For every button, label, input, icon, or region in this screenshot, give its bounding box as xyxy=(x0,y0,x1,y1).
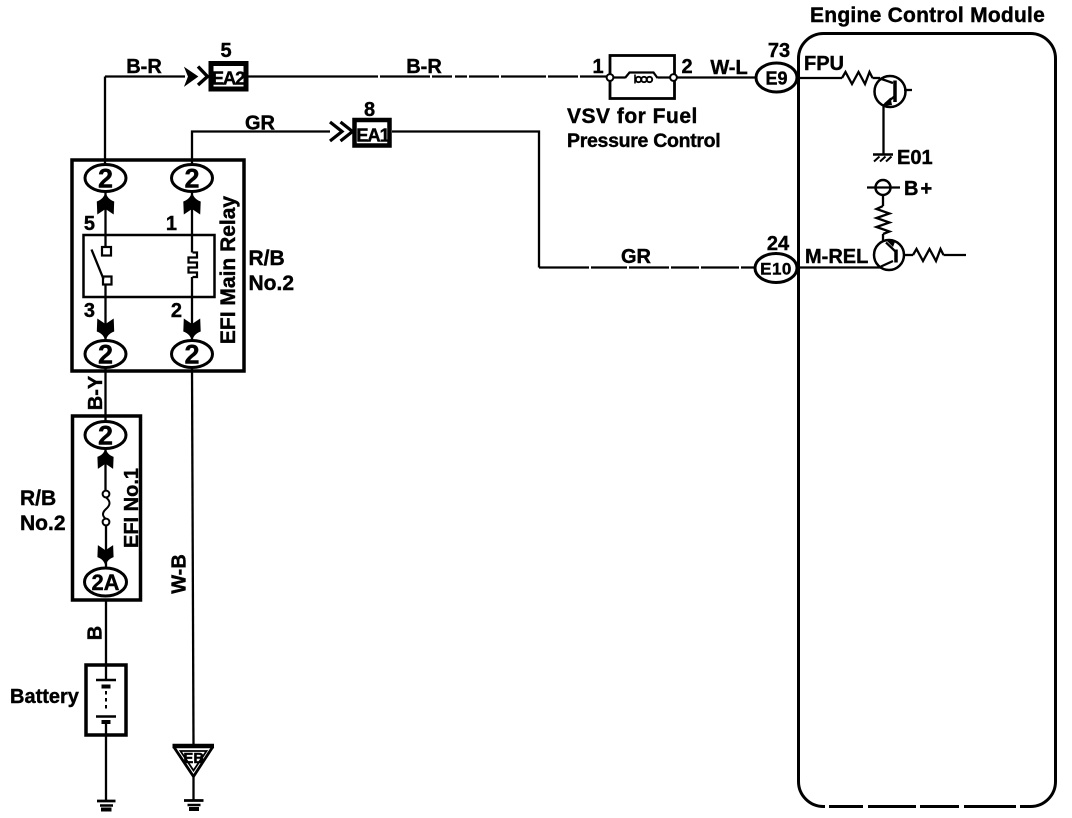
svg-text:Engine Control Module: Engine Control Module xyxy=(810,4,1045,27)
svg-text:EA1: EA1 xyxy=(356,125,389,146)
svg-text:5: 5 xyxy=(84,213,95,235)
svg-text:No.2: No.2 xyxy=(20,512,66,535)
svg-text:3: 3 xyxy=(84,300,95,322)
svg-text:73: 73 xyxy=(768,40,790,62)
svg-text:B+: B+ xyxy=(904,178,934,200)
svg-text:EA2: EA2 xyxy=(212,68,245,89)
svg-text:5: 5 xyxy=(220,40,231,62)
svg-text:GR: GR xyxy=(621,246,652,268)
svg-text:E01: E01 xyxy=(897,147,933,169)
svg-text:2: 2 xyxy=(98,164,113,194)
svg-text:B: B xyxy=(85,626,107,640)
svg-text:R/B: R/B xyxy=(20,487,56,510)
svg-text:2: 2 xyxy=(184,164,199,194)
svg-text:1: 1 xyxy=(166,213,177,235)
svg-text:E9: E9 xyxy=(765,69,787,89)
svg-text:2: 2 xyxy=(171,300,182,322)
svg-text:B-R: B-R xyxy=(126,56,162,78)
svg-text:24: 24 xyxy=(767,233,790,255)
svg-text:Pressure Control: Pressure Control xyxy=(567,130,720,152)
svg-text:B-R: B-R xyxy=(406,56,442,78)
svg-text:M-REL: M-REL xyxy=(805,246,868,268)
svg-text:No.2: No.2 xyxy=(249,272,295,295)
svg-text:2A: 2A xyxy=(91,570,119,595)
svg-text:2: 2 xyxy=(98,340,113,370)
svg-text:W-B: W-B xyxy=(169,554,191,594)
svg-text:1: 1 xyxy=(592,56,603,78)
svg-text:W-L: W-L xyxy=(710,57,747,79)
svg-text:2: 2 xyxy=(98,421,113,451)
svg-text:2: 2 xyxy=(681,56,692,78)
svg-text:EFI Main Relay: EFI Main Relay xyxy=(217,196,240,345)
svg-text:EFI No.1: EFI No.1 xyxy=(121,468,143,548)
svg-text:FPU: FPU xyxy=(804,53,844,75)
svg-text:GR: GR xyxy=(245,113,276,135)
svg-text:2: 2 xyxy=(184,340,199,370)
svg-text:EB: EB xyxy=(183,750,204,767)
svg-text:VSV for Fuel: VSV for Fuel xyxy=(567,105,698,128)
svg-text:B-Y: B-Y xyxy=(85,375,107,410)
svg-text:R/B: R/B xyxy=(249,247,285,270)
svg-text:8: 8 xyxy=(364,99,375,121)
svg-text:Battery: Battery xyxy=(10,686,80,708)
svg-text:E10: E10 xyxy=(760,260,792,279)
